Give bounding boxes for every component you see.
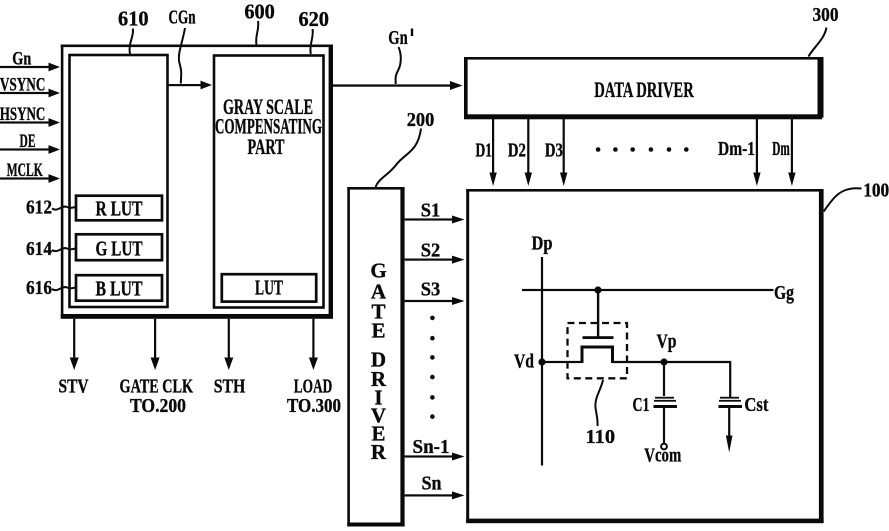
svg-text:612: 612 [26, 197, 52, 219]
svg-text:R LUT: R LUT [96, 197, 143, 221]
GATE DRIVER vertical text [370, 259, 387, 465]
ground arrow below Cst [726, 436, 733, 453]
node Vcom terminal circle [661, 444, 667, 450]
svg-text:S2: S2 [421, 240, 441, 262]
svg-text:100: 100 [863, 180, 889, 202]
box 610 timing controller inner box [70, 55, 168, 307]
svg-text:610: 610 [118, 7, 149, 31]
svg-text:614: 614 [26, 238, 52, 260]
svg-text:600: 600 [244, 0, 275, 24]
wire Gn' from 600 to DATA DRIVER with arrow [332, 81, 463, 90]
label 616 with leader [26, 277, 76, 299]
svg-text:TO.200: TO.200 [130, 395, 186, 417]
wire HSYNC input [0, 118, 60, 127]
svg-text:STH: STH [214, 376, 246, 398]
wire CGn from 610 to 620 with arrow [168, 81, 212, 90]
svg-text:MCLK: MCLK [7, 160, 43, 181]
svg-text:Sn: Sn [422, 473, 442, 495]
svg-text:E: E [371, 319, 385, 343]
box 600 outer controller box [61, 45, 333, 319]
box 200 GATE DRIVER [347, 187, 404, 527]
svg-text:Vcom: Vcom [644, 445, 681, 467]
svg-text:Gn: Gn [12, 49, 31, 70]
vertical dots between S3 and Sn-1 [430, 316, 435, 419]
svg-text:Dm: Dm [772, 138, 790, 160]
svg-text:Sn-1: Sn-1 [413, 436, 450, 458]
svg-text:Vd: Vd [514, 351, 534, 373]
wire TFT gate stem [597, 290, 599, 337]
label 620 with leader [298, 7, 329, 54]
svg-text:Vp: Vp [657, 331, 677, 353]
wire D1 arrow [489, 118, 496, 187]
svg-text:200: 200 [407, 109, 435, 131]
wire S2 with arrow [405, 256, 465, 264]
label 200 with leader [376, 109, 435, 187]
label 612 with leader [26, 197, 76, 219]
svg-text:300: 300 [813, 4, 839, 26]
svg-text:DE: DE [20, 131, 36, 152]
svg-text:Gg: Gg [774, 282, 794, 304]
wire Dm arrow [788, 118, 795, 187]
svg-text:HSYNC: HSYNC [0, 104, 45, 125]
svg-text:PART: PART [248, 134, 285, 159]
svg-text:110: 110 [586, 426, 616, 448]
wire Gn input [0, 63, 60, 72]
wire Gg gate line [522, 289, 774, 291]
svg-text:S1: S1 [421, 200, 441, 222]
wire D3 arrow [560, 118, 567, 187]
wire D2 arrow [525, 118, 532, 187]
box 300 DATA DRIVER [464, 57, 824, 119]
dots between D3 and Dm-1 [596, 147, 689, 152]
svg-text:Dm-1: Dm-1 [718, 138, 755, 160]
svg-text:616: 616 [26, 277, 52, 299]
svg-text:LUT: LUT [255, 276, 283, 300]
label Gn' with leader [388, 27, 413, 84]
R LUT box [76, 196, 162, 221]
label 100 with leader [824, 180, 889, 212]
label 600 with leader [244, 0, 275, 45]
wire transistor to Vp and corner to Cst [613, 362, 731, 397]
svg-text:D1: D1 [476, 140, 493, 162]
svg-text:DATA DRIVER: DATA DRIVER [594, 77, 694, 102]
wire Dm-1 arrow [753, 118, 760, 187]
arrow GATE CLK out of 600 [151, 319, 160, 370]
label 614 with leader [26, 238, 76, 260]
LUT box inside 620 [222, 274, 316, 301]
svg-text:CGn: CGn [169, 7, 196, 29]
arrow LOAD out of 600 [309, 319, 318, 370]
svg-text:R: R [371, 440, 387, 464]
svg-text:S3: S3 [421, 279, 441, 301]
label 610 with leader [118, 7, 149, 55]
transistor 110 channel bridge [582, 347, 613, 363]
B LUT box [76, 275, 162, 301]
label CGn with leader [169, 7, 196, 84]
node Vd with dot [538, 358, 545, 365]
wire Dp vertical data line [541, 257, 543, 466]
capacitor Cst [719, 397, 743, 440]
svg-text:G LUT: G LUT [96, 237, 143, 261]
junction on gate line [594, 286, 601, 293]
svg-text:B LUT: B LUT [96, 277, 143, 301]
label 110 with leader [586, 380, 616, 448]
transistor 110 gate bar [583, 336, 614, 339]
wire Sn with arrow [405, 491, 465, 499]
dashed box around transistor 110 [568, 323, 628, 378]
svg-text:Dp: Dp [532, 233, 553, 255]
G LUT box [76, 234, 162, 260]
svg-text:D2: D2 [508, 140, 526, 162]
wire Vd to transistor [542, 361, 582, 363]
box 100 panel [466, 189, 823, 523]
wire MCLK input [0, 174, 60, 183]
svg-text:TO.300: TO.300 [287, 395, 341, 417]
capacitor C1 [654, 362, 678, 444]
svg-text:C1: C1 [633, 394, 650, 416]
svg-text:Cst: Cst [744, 394, 768, 416]
svg-text:D3: D3 [545, 140, 563, 162]
wire S1 with arrow [405, 216, 465, 224]
svg-text:VSYNC: VSYNC [0, 74, 45, 95]
svg-text:Gn: Gn [388, 27, 408, 49]
wire Sn-1 with arrow [405, 453, 465, 461]
svg-text:STV: STV [59, 376, 89, 398]
arrow STH out of 600 [224, 319, 233, 370]
box 620 gray scale compensating part [214, 56, 324, 308]
wire DE input [0, 145, 60, 154]
wire VSYNC input [0, 89, 60, 98]
label 300 with leader [809, 4, 839, 57]
svg-text:620: 620 [298, 7, 329, 31]
arrow STV out of 600 [70, 319, 79, 370]
wire S3 with arrow [405, 297, 465, 305]
node Vp with dot [660, 358, 667, 365]
